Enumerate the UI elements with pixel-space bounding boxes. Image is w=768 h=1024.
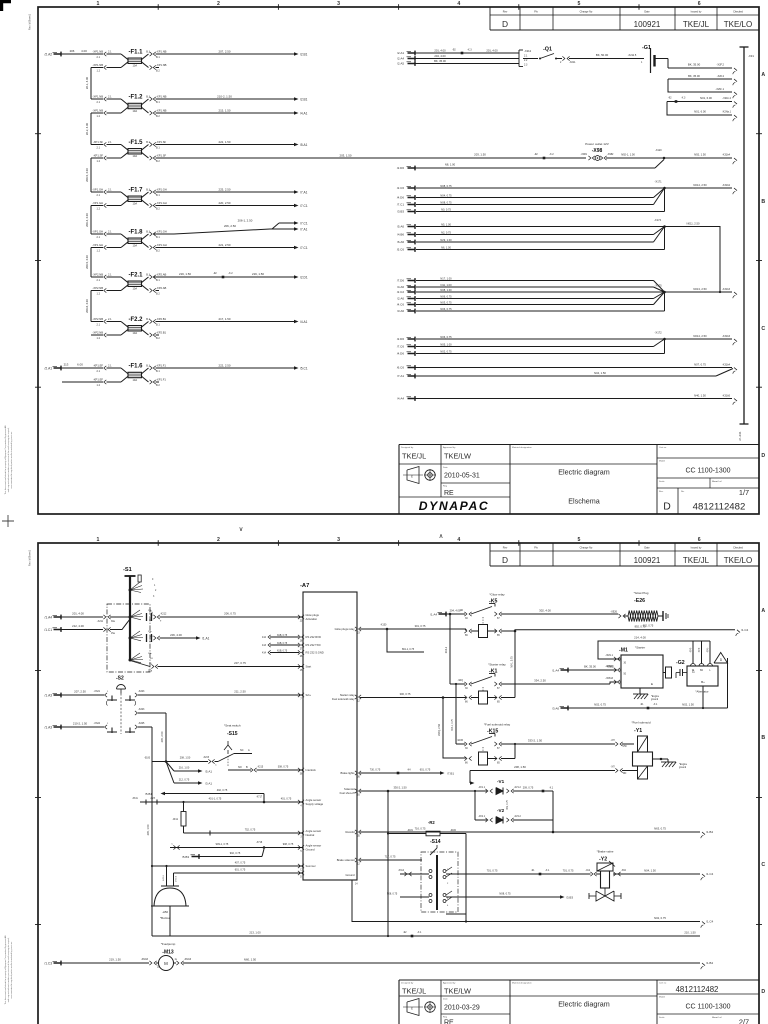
svg-text:-XP1.NB: -XP1.NB: [93, 94, 104, 98]
svg-text:2.1: 2.1: [97, 236, 101, 239]
svg-text:1/7: 1/7: [739, 488, 749, 497]
svg-text:N92-1, 1.00: N92-1, 1.00: [621, 152, 635, 156]
svg-text:/4.C6: /4.C6: [397, 303, 405, 307]
svg-text:NO: NO: [238, 766, 242, 769]
wire G2 pins: [692, 641, 694, 664]
svg-text:N011, 2.50: N011, 2.50: [687, 221, 700, 225]
svg-text:Brake solenoid: Brake solenoid: [337, 858, 355, 862]
svg-text:207, 0.75: 207, 0.75: [234, 661, 246, 665]
wire Y1 bottom feed: [470, 770, 615, 772]
svg-text:-X31b3: -X31b3: [722, 288, 731, 291]
fuse -F1.8: [91, 233, 103, 235]
svg-text:/4.B6: /4.B6: [397, 233, 404, 237]
svg-text:/7.A1: /7.A1: [300, 227, 308, 231]
wire: [156, 321, 295, 323]
svg-text:(Q2): (Q2): [690, 648, 692, 653]
svg-text:*Starter relay: *Starter relay: [488, 663, 506, 667]
wire brake solenoid output: [360, 859, 422, 861]
svg-text:412: 412: [262, 636, 267, 639]
svg-text:(Q3): (Q3): [699, 648, 701, 653]
svg-text:217, 1.50: 217, 1.50: [218, 317, 230, 321]
svg-text:*Engine: *Engine: [679, 764, 688, 766]
svg-text:*Seat switch: *Seat switch: [224, 724, 241, 728]
wire: [156, 247, 295, 249]
svg-text:-X.1: -X.1: [417, 931, 422, 934]
svg-text:601, 0.75: 601, 0.75: [235, 869, 246, 872]
crop mark top-left: [0, 0, 11, 11]
svg-text:-X.1: -X.1: [653, 703, 658, 706]
svg-text:-X211: -X211: [569, 61, 576, 64]
svg-text:N11, 1.00: N11, 1.00: [440, 283, 452, 287]
svg-text:333-2, 1.50: 333-2, 1.50: [528, 739, 543, 743]
svg-text:1.2: 1.2: [97, 160, 101, 163]
svg-text:Electric diagram: Electric diagram: [558, 1000, 610, 1009]
svg-text:-XM1.1: -XM1.1: [605, 654, 613, 657]
svg-text:2010-05-31: 2010-05-31: [444, 473, 480, 480]
svg-text:/6.C6: /6.C6: [397, 366, 405, 370]
wire K15 coil return: [501, 758, 515, 760]
wire K15 coil feed: [443, 698, 466, 759]
svg-text:-X2Na.1: -X2Na.1: [722, 111, 732, 114]
svg-text:/4.D6: /4.D6: [397, 352, 405, 356]
svg-text:4812112482: 4812112482: [693, 502, 746, 513]
svg-text:-X2F.2: -X2F.2: [717, 75, 725, 78]
svg-text:-F1.8: -F1.8: [129, 229, 144, 235]
svg-text:NC: NC: [240, 749, 244, 752]
svg-text:3: 3: [337, 537, 340, 543]
svg-text:/1.C4: /1.C4: [706, 872, 714, 876]
svg-text:-X21b.2: -X21b.2: [722, 97, 731, 100]
svg-text:N04, 0.75: N04, 0.75: [440, 193, 452, 197]
S14 box lines: [465, 834, 467, 915]
svg-text:-92: -92: [534, 153, 538, 156]
svg-text:4: 4: [457, 1, 460, 7]
svg-text:*Fuel solenoid: *Fuel solenoid: [631, 721, 650, 725]
svg-text:N05, 1.00: N05, 1.00: [440, 342, 452, 346]
svg-text:208, 1.50: 208, 1.50: [514, 765, 526, 769]
svg-text:RE: RE: [444, 1020, 454, 1024]
S1 contacts: [129, 616, 132, 619]
wire ground pin row: [174, 872, 304, 874]
svg-text:-V2: -V2: [497, 808, 505, 813]
svg-text:D: D: [502, 555, 508, 565]
svg-text:Ground: Ground: [346, 873, 355, 877]
svg-text:-F1.2: -F1.2: [129, 94, 144, 100]
svg-text:/7.C1: /7.C1: [397, 203, 405, 207]
svg-text:207, 2.50: 207, 2.50: [218, 49, 230, 53]
svg-text:B.1: B.1: [156, 147, 160, 150]
wire K5-K1 link: [449, 613, 452, 616]
fuse F1.6 feed: [54, 367, 62, 369]
svg-text:Cert no: Cert no: [659, 982, 667, 985]
svg-text:2/7: 2/7: [739, 1018, 749, 1024]
svg-text:Change No: Change No: [580, 10, 593, 13]
wire to /5.A1: [166, 762, 174, 772]
svg-text:100921: 100921: [634, 20, 661, 29]
svg-text:B.1: B.1: [156, 370, 160, 373]
svg-text:-XP1.GH: -XP1.GH: [156, 229, 167, 233]
svg-text:-X.2: -X.2: [549, 153, 554, 156]
svg-text:Checked: Checked: [733, 10, 743, 13]
svg-text:-XP2.AB: -XP2.AB: [156, 272, 167, 276]
svg-text:-S14: -S14: [430, 839, 441, 845]
svg-text:2.1: 2.1: [97, 324, 101, 327]
svg-text:-XP1.GH: -XP1.GH: [156, 187, 167, 191]
svg-text:/7.C1: /7.C1: [300, 204, 308, 208]
svg-text:N40, 1.50: N40, 1.50: [694, 393, 706, 397]
svg-text:1: 1: [97, 537, 100, 543]
svg-text:-X31b4: -X31b4: [722, 363, 731, 366]
svg-text:C: C: [761, 862, 765, 868]
svg-text:/3.A1: /3.A1: [205, 781, 212, 785]
svg-text:/3.A6: /3.A6: [552, 706, 559, 710]
svg-text:2.1: 2.1: [108, 364, 112, 367]
svg-text:CC 1100-1300: CC 1100-1300: [685, 1004, 730, 1011]
svg-text:Designed by: Designed by: [401, 983, 414, 985]
wire angle neutral: [184, 832, 304, 834]
svg-text:N60, 1.50: N60, 1.50: [244, 958, 257, 962]
svg-text:N08, 0.75: N08, 0.75: [440, 184, 452, 188]
svg-text:B.2: B.2: [156, 337, 160, 340]
svg-text:407, 0.75: 407, 0.75: [235, 862, 246, 865]
wire S1 to glow pin: [146, 613, 148, 621]
wire -X172 output: [665, 338, 733, 340]
svg-text:N06, 0.75: N06, 0.75: [440, 307, 452, 311]
svg-text:1: 1: [97, 1, 100, 7]
svg-text:Approved by: Approved by: [443, 982, 456, 985]
svg-text:-X212: -X212: [160, 613, 167, 616]
svg-text:B.1: B.1: [146, 50, 150, 53]
svg-text:2.1: 2.1: [97, 147, 101, 150]
wire F1.8 outputs: [153, 233, 174, 235]
svg-text:N1B, 0.75: N1B, 0.75: [277, 635, 288, 637]
wire: [156, 290, 160, 292]
svg-text:Model: Model: [659, 461, 665, 463]
svg-text:BK, 35.00: BK, 35.00: [688, 74, 700, 78]
wire to /3.A1: [166, 762, 174, 784]
svg-text:B+: B+: [701, 680, 705, 684]
svg-text:-X2F.2: -X2F.2: [717, 63, 725, 67]
svg-text:-X981: -X981: [581, 153, 588, 156]
svg-text:Rev: Rev: [503, 10, 508, 13]
svg-text:-X.3: -X.3: [467, 48, 472, 51]
projection symbol: [407, 467, 419, 484]
svg-text:-X175: -X175: [655, 284, 663, 288]
svg-text:TKE/JL: TKE/JL: [402, 452, 426, 461]
svg-text:BK, 50.00: BK, 50.00: [596, 53, 609, 57]
svg-text:*Fuelpump: *Fuelpump: [161, 942, 176, 946]
svg-text:100921: 100921: [634, 556, 661, 565]
svg-text:TKE/JL: TKE/JL: [683, 556, 710, 565]
svg-text:413: 413: [262, 644, 267, 647]
svg-text:-XE26: -XE26: [610, 611, 617, 614]
svg-text:-XP1.NB: -XP1.NB: [93, 108, 104, 112]
svg-text:/5.C1: /5.C1: [300, 366, 308, 370]
wire brake lights output: [360, 772, 440, 774]
svg-text:303-1, 0.75: 303-1, 0.75: [452, 718, 454, 730]
svg-text:*Starter: *Starter: [635, 646, 645, 650]
svg-text:/3.B3: /3.B3: [566, 895, 573, 899]
svg-text:219, 1.50: 219, 1.50: [252, 272, 264, 276]
svg-text:10A: 10A: [132, 287, 137, 291]
svg-text:-0Y8: -0Y8: [150, 798, 156, 800]
svg-text:-X717: -X717: [256, 796, 263, 798]
revision table page 2: [489, 543, 491, 566]
svg-text:/1.A3: /1.A3: [45, 726, 53, 730]
svg-text:Date: Date: [443, 998, 448, 1001]
A7 pin Glow plugs relay: [359, 627, 362, 631]
svg-text:N29, 1.00: N29, 1.00: [440, 238, 452, 242]
svg-text:N02, 0.75: N02, 0.75: [594, 703, 606, 707]
svg-text:Glow plugs relay: Glow plugs relay: [335, 627, 356, 631]
svg-text:-0V2.1: -0V2.1: [478, 816, 485, 818]
svg-text:2.1: 2.1: [108, 95, 112, 98]
fuse -F1.6: [62, 367, 103, 369]
svg-text:/4.D6: /4.D6: [397, 196, 405, 200]
svg-text:Checked: Checked: [733, 546, 743, 549]
A7 pin S2i+: [298, 693, 301, 697]
svg-text:-G2: -G2: [676, 660, 685, 666]
wire recoil output: [360, 831, 700, 833]
svg-text:213, 1.00: 213, 1.00: [249, 930, 261, 934]
wire loop X21b: [667, 101, 732, 103]
svg-text:5: 5: [578, 537, 581, 543]
svg-text:212, 0.75: 212, 0.75: [179, 779, 190, 782]
K15 coil: [479, 752, 488, 765]
svg-text:717, 0.75: 717, 0.75: [385, 855, 396, 859]
svg-text:-X171: -X171: [655, 180, 663, 184]
svg-text:/1.A4: /1.A4: [430, 612, 437, 616]
S1 dashed enclosure: [107, 604, 150, 672]
svg-text:-KM13: -KM13: [141, 958, 149, 961]
svg-text:752, 0.75: 752, 0.75: [245, 828, 256, 831]
wire K5 feed: [439, 613, 447, 615]
supply rail: [90, 68, 92, 100]
svg-text:-90Q: -90Q: [458, 679, 463, 682]
svg-text:-0V1.2: -0V1.2: [514, 787, 521, 789]
svg-text:-XP2.NB: -XP2.NB: [93, 272, 104, 276]
A7 pin RS 232 RXD: [298, 635, 301, 639]
fuse -F1.7: [91, 191, 103, 193]
svg-text:N08, 0.75: N08, 0.75: [440, 200, 452, 204]
svg-text:/2.C2: /2.C2: [397, 290, 405, 294]
svg-text:B.2: B.2: [156, 293, 160, 296]
wire K coil returns: [501, 697, 515, 699]
A7 pin Brake solenoid: [359, 858, 362, 862]
svg-text:4812112482: 4812112482: [676, 985, 719, 994]
A7 pin Brake lights: [359, 771, 362, 775]
svg-text:-XP2.NB: -XP2.NB: [93, 317, 104, 321]
wire: [156, 191, 295, 193]
svg-text:-F2.1: -F2.1: [129, 272, 144, 278]
wire K15 out: [501, 743, 615, 745]
svg-text:-S2: -S2: [116, 676, 124, 682]
A7 pin Start: [298, 664, 301, 668]
svg-text:Sheet / of: Sheet / of: [712, 480, 722, 483]
svg-text:Electric diagram: Electric diagram: [558, 468, 610, 477]
svg-text:330-2, 1.50: 330-2, 1.50: [393, 786, 407, 790]
svg-text:N63, 0.75: N63, 0.75: [654, 827, 666, 831]
svg-text:BK, 35.00: BK, 35.00: [688, 63, 701, 67]
A7 pin Recoild: [359, 830, 362, 834]
svg-text:/2.A1: /2.A1: [397, 51, 404, 55]
svg-text:-X.2: -X.2: [228, 272, 233, 275]
svg-text:Supply voltage: Supply voltage: [306, 802, 324, 806]
svg-text:210, 1.50: 210, 1.50: [684, 930, 696, 934]
wire S1 start row: [130, 661, 150, 667]
svg-text:-X324: -X324: [94, 722, 101, 725]
svg-text:Angle sensor: Angle sensor: [306, 829, 322, 833]
svg-text:B.1: B.1: [146, 318, 150, 321]
svg-text:-XP1.SF: -XP1.SF: [156, 153, 167, 157]
svg-text:N013, 2.50: N013, 2.50: [693, 287, 707, 291]
svg-text:-XP2.AB: -XP2.AB: [156, 286, 167, 290]
wire S14 bottom returns: [465, 914, 467, 922]
svg-text:219, 1.50: 219, 1.50: [179, 272, 191, 276]
fuse -F1.5: [91, 144, 103, 146]
svg-text:213: 213: [64, 363, 69, 367]
svg-text:-X7\: -X7\: [611, 765, 616, 768]
svg-text:208, 1.50: 208, 1.50: [180, 757, 191, 760]
svg-text:N08, 0.75: N08, 0.75: [499, 892, 511, 896]
wire: [156, 144, 295, 146]
svg-text:/1.A3: /1.A3: [45, 694, 53, 698]
svg-text:Change No: Change No: [580, 546, 593, 549]
svg-text:-X31: -X31: [748, 54, 754, 58]
svg-text:2.1: 2.1: [108, 50, 112, 53]
svg-text:2.1: 2.1: [108, 188, 112, 191]
svg-text:10A: 10A: [132, 109, 137, 113]
svg-text:2.1: 2.1: [97, 370, 101, 373]
svg-text:/1.A1: /1.A1: [202, 636, 210, 640]
svg-text:-XP1.EF: -XP1.EF: [93, 377, 104, 381]
svg-text:2.1: 2.1: [108, 230, 112, 233]
wire K1 out: [501, 683, 610, 685]
svg-text:204-1: 204-1: [445, 646, 448, 653]
svg-text:Start: Start: [306, 665, 312, 669]
A7 pin Angle sensor: [298, 831, 301, 835]
A7 pin Angle sensor: [298, 800, 301, 804]
svg-text:D: D: [502, 19, 508, 29]
svg-text:-X321: -X321: [94, 690, 101, 693]
svg-text:5: 5: [578, 1, 581, 7]
svg-text:205, 1.50: 205, 1.50: [146, 824, 150, 835]
svg-text:E: E: [651, 682, 653, 686]
svg-text:-X0813: -X0813: [605, 677, 613, 680]
svg-text:B.1: B.1: [156, 194, 160, 197]
svg-text:902, 0.75: 902, 0.75: [230, 852, 241, 855]
svg-text:N06, 0.75: N06, 0.75: [440, 294, 452, 298]
wire: [156, 53, 295, 55]
svg-text:1.2: 1.2: [97, 337, 101, 340]
svg-text:TKE/JL: TKE/JL: [402, 987, 426, 996]
svg-text:/1.C3: /1.C3: [44, 962, 52, 966]
svg-text:N07, 0.75: N07, 0.75: [694, 362, 706, 366]
svg-text:892, 0.75: 892, 0.75: [635, 624, 646, 628]
svg-text:B.1: B.1: [156, 101, 160, 104]
svg-text:-0V2.2: -0V2.2: [514, 816, 521, 818]
wire angle supply: [140, 801, 303, 803]
svg-text:201, 4.00: 201, 4.00: [72, 612, 84, 616]
svg-text:BK, 35.00: BK, 35.00: [584, 665, 596, 669]
svg-text:/2.A2: /2.A2: [45, 53, 53, 57]
svg-text:/1.C4: /1.C4: [706, 920, 714, 924]
svg-text:-F1.7: -F1.7: [129, 187, 144, 193]
svg-text:-X.1: -X.1: [545, 869, 550, 872]
wire: [156, 98, 295, 100]
svg-text:N014, 2.50: N014, 2.50: [693, 183, 707, 187]
svg-text:B.1: B.1: [146, 188, 150, 191]
svg-text:N9-1, 0.75: N9-1, 0.75: [511, 656, 514, 668]
svg-text:334, 2.50: 334, 2.50: [534, 679, 546, 683]
svg-text:C: C: [761, 326, 765, 332]
svg-text:-XP2.B1: -XP2.B1: [156, 317, 167, 321]
svg-text:TKE/LW: TKE/LW: [444, 452, 471, 461]
svg-text:N6, 1.00: N6, 1.00: [441, 245, 451, 249]
svg-text:-X92: -X92: [621, 870, 627, 872]
svg-text:206, 0.75: 206, 0.75: [224, 612, 236, 616]
svg-text:and may not without a written: and may not without a written permission…: [7, 937, 10, 1002]
svg-text:/7.A1: /7.A1: [397, 374, 404, 378]
wire F2.1 output: [153, 276, 294, 278]
wire D+ loop: [727, 658, 729, 708]
svg-text:S2i+: S2i+: [306, 693, 312, 697]
svg-text:-0183: -0183: [144, 758, 151, 760]
svg-text:-R2: -R2: [428, 820, 435, 825]
svg-text:CC 1100-1300: CC 1100-1300: [685, 468, 730, 475]
svg-text:1.2: 1.2: [97, 208, 101, 211]
wire S2 down: [165, 713, 167, 762]
svg-text:-Q1: -Q1: [543, 47, 552, 53]
svg-text:Angle sensor: Angle sensor: [306, 844, 322, 848]
wire: [156, 367, 295, 369]
svg-text:*Fuel solenoid relay: *Fuel solenoid relay: [484, 723, 511, 727]
svg-text:N08, 0.75: N08, 0.75: [387, 892, 398, 895]
wire battery output: [667, 59, 669, 69]
svg-text:B.1: B.1: [146, 230, 150, 233]
svg-text:/4.A1: /4.A1: [300, 320, 308, 324]
wire A7 starter output: [360, 697, 466, 699]
svg-text:10A: 10A: [132, 378, 137, 382]
svg-text:-G1: -G1: [642, 45, 651, 51]
svg-text:B.1: B.1: [156, 324, 160, 327]
svg-text:Summer: Summer: [306, 864, 316, 868]
wire 902: [192, 856, 200, 858]
svg-text:-0182: -0182: [450, 830, 457, 832]
svg-text:B: B: [761, 735, 765, 741]
svg-text:Power outlet 12V: Power outlet 12V: [585, 142, 609, 146]
svg-text:-XP2.B1: -XP2.B1: [156, 330, 167, 334]
svg-text:208-6, 4.00: 208-6, 4.00: [85, 299, 89, 313]
svg-text:Date: Date: [443, 466, 448, 469]
svg-text:220, 2.50: 220, 2.50: [218, 201, 230, 205]
svg-text:-KM13: -KM13: [184, 958, 192, 961]
svg-text:Ground: Ground: [306, 848, 315, 852]
svg-text:208-5, 4.00: 208-5, 4.00: [85, 255, 89, 269]
svg-text:-M1: -M1: [619, 648, 628, 654]
svg-text:201, 4.00: 201, 4.00: [434, 49, 446, 53]
svg-text:(Q1): (Q1): [707, 648, 709, 653]
svg-text:206-1, 2.50: 206-1, 2.50: [238, 218, 253, 222]
title block page 2: [399, 979, 759, 981]
wire S2 row1: [54, 694, 62, 696]
svg-text:ground: ground: [679, 766, 687, 769]
svg-text:-X7\: -X7\: [611, 739, 616, 742]
svg-text:-XP2.NB: -XP2.NB: [93, 330, 104, 334]
svg-text:2: 2: [217, 537, 220, 543]
svg-text:B.2: B.2: [156, 160, 160, 163]
svg-text:-X31b3: -X31b3: [722, 335, 731, 338]
